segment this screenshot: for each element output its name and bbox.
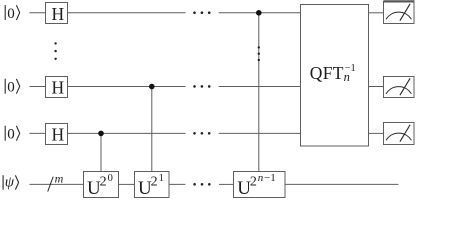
- vdots between row1 and row2 under H column: [54, 42, 56, 60]
- svg-text:−1: −1: [345, 63, 356, 74]
- node q2 ket |0> row3: [5, 126, 20, 143]
- svg-text:m: m: [55, 171, 64, 185]
- gate H row3: [46, 124, 68, 145]
- svg-text:−1: −1: [264, 172, 276, 184]
- gate H row1: [46, 3, 68, 25]
- control dot on row3 (controls U2^0): [98, 131, 104, 137]
- svg-text:2: 2: [100, 175, 107, 190]
- control dot on row2 (controls U2^1): [149, 84, 155, 90]
- svg-text:QFT: QFT: [310, 63, 344, 83]
- cdots row1: [193, 11, 210, 14]
- wire vertical control line to U2^0: [100, 133, 102, 171]
- meter row2: [384, 77, 415, 98]
- gate U 2^n-1: [234, 172, 286, 200]
- control dot on row1 (controls U2^n-1): [256, 10, 262, 16]
- gate U 2^1: [135, 172, 170, 200]
- wire row1 segments: [30, 12, 385, 14]
- node q1 ket |0> row2: [5, 79, 20, 96]
- svg-text:H: H: [52, 125, 65, 145]
- meter row3: [384, 123, 415, 145]
- cdots row4: [193, 183, 210, 186]
- svg-text:2: 2: [250, 175, 257, 190]
- svg-text:H: H: [52, 4, 65, 24]
- svg-text:ψ: ψ: [5, 175, 15, 191]
- wire vertical control line to U2^1: [151, 87, 153, 172]
- wire row3 segments: [30, 132, 385, 134]
- wire bundle slash /m on row4: [48, 171, 64, 191]
- svg-text:0: 0: [7, 80, 15, 96]
- meter row1: [384, 1, 415, 23]
- wire vertical control line to U2^n-1: [258, 13, 260, 171]
- svg-text:H: H: [52, 78, 65, 98]
- svg-text:2: 2: [151, 175, 158, 190]
- wire row4 segments: [30, 183, 399, 185]
- gate QFT inverse box: [301, 5, 369, 147]
- svg-text:1: 1: [159, 173, 164, 184]
- cdots row3: [193, 132, 210, 135]
- node psi ket row4: [3, 175, 19, 191]
- wire row2 segments: [30, 86, 385, 88]
- svg-text:0: 0: [108, 173, 113, 184]
- cdots row2: [193, 85, 210, 88]
- svg-text:n: n: [258, 172, 264, 184]
- node q0 ket |0> row1: [5, 5, 20, 22]
- gate U 2^0: [84, 172, 119, 200]
- svg-text:0: 0: [7, 127, 15, 143]
- gate H row2: [46, 77, 68, 98]
- vdots on control line x=258.8: [258, 46, 260, 61]
- svg-text:0: 0: [7, 6, 15, 22]
